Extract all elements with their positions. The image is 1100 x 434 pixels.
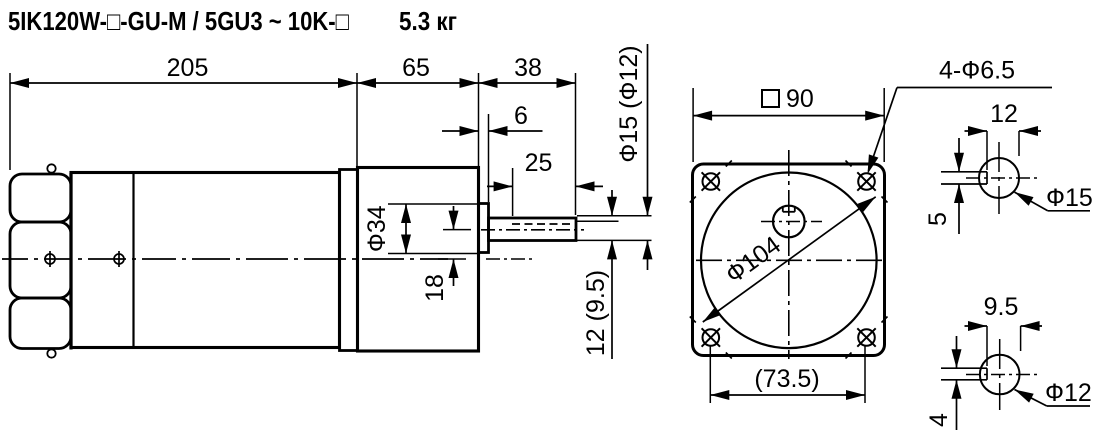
ext line boss face (488, 114, 490, 202)
detail F15 keyway slot (941, 171, 987, 173)
motor centerline right segment (486, 258, 533, 260)
svg-text:65: 65 (402, 54, 430, 82)
svg-text:Ф34: Ф34 (363, 205, 391, 252)
tick motor center level (438, 258, 466, 260)
svg-text:5: 5 (924, 212, 952, 226)
dim 18 upper line (453, 206, 455, 230)
ext line shaft top (577, 215, 652, 217)
label 4-F6.5 leader (869, 88, 898, 172)
output shaft (489, 218, 577, 241)
detail F12 ext line right edge (1020, 326, 1022, 351)
detail F15 ext line right edge (1018, 131, 1020, 156)
gearbox front square (693, 164, 885, 356)
svg-text:18: 18 (421, 274, 449, 302)
bolt hole top-left (703, 173, 720, 190)
svg-text:5.3 кг: 5.3 кг (399, 6, 457, 36)
front housing circle (701, 172, 877, 348)
ext line hole left (709, 346, 711, 403)
shaft flat hidden line (512, 223, 574, 225)
front shaft centerline (761, 221, 822, 223)
front vertical centerline (788, 150, 790, 359)
shaft centerline (481, 229, 584, 231)
centerline mark circle 2 (114, 254, 124, 264)
svg-text:Ф104: Ф104 (721, 231, 787, 289)
detail F12 shaft circle (980, 355, 1020, 395)
svg-text:6: 6 (514, 102, 528, 130)
rear cover lobe 3 (10, 298, 71, 349)
ext line boss bottom (388, 253, 480, 255)
gearbox flange (340, 170, 358, 351)
svg-text:38: 38 (514, 54, 542, 82)
dim text square90 (762, 90, 779, 107)
dim 12(9.5) lower line (611, 240, 613, 359)
svg-text:4-Ф6.5: 4-Ф6.5 (939, 57, 1015, 85)
detail F15 dim 12 (965, 130, 988, 132)
dim F15(F12) upper line (647, 44, 649, 216)
svg-text:Ф15: Ф15 (1046, 184, 1093, 212)
detail F12 dim 4 upper line (956, 336, 958, 368)
detail F15 dim 5 lower line (958, 184, 960, 234)
front horizontal centerline (696, 259, 886, 261)
detail F12 vertical centerline (999, 339, 1001, 410)
dim 25 (487, 185, 513, 187)
centerline mark tick 2 (118, 251, 120, 267)
label F15 leader (1015, 192, 1048, 211)
svg-text:5IK120W-□-GU-M / 5GU3 ~ 10K-□: 5IK120W-□-GU-M / 5GU3 ~ 10K-□ (8, 6, 349, 36)
detail F15 shaft circle (979, 158, 1019, 198)
motor centerline (2, 258, 28, 260)
detail F15 horizontal centerline (966, 177, 1040, 179)
svg-text:4: 4 (925, 413, 953, 427)
ext line boss top (388, 203, 480, 205)
detail F15 vertical centerline (998, 142, 1000, 214)
screw head bump bottom (47, 349, 55, 357)
svg-text:90: 90 (786, 85, 814, 113)
dim (73.5) line (710, 394, 865, 396)
tick shaft center level (443, 229, 471, 231)
gearbox body (358, 168, 479, 352)
svg-text:12 (9.5): 12 (9.5) (582, 270, 610, 356)
bolt hole bottom-right (858, 329, 875, 346)
svg-text:Ф15 (Ф12): Ф15 (Ф12) (615, 45, 643, 162)
svg-text:25: 25 (525, 149, 553, 177)
front shaft keyway notch (782, 207, 784, 212)
rear cover lobe 2 (10, 222, 71, 298)
detail F12 ext line slot floor (986, 326, 988, 366)
bolt hole top-right (858, 173, 875, 190)
dim 18 lower line (453, 259, 455, 286)
output boss (479, 204, 489, 253)
detail F12 keyway slot (941, 367, 987, 369)
dim F15(F12) lower line (647, 240, 649, 270)
centerline mark tick 1 (49, 251, 51, 267)
dim F104 diagonal line (703, 197, 876, 322)
detail F12 dim 4 lower line (956, 380, 958, 430)
ext line shaft end (575, 73, 577, 215)
ext line square right (883, 88, 885, 162)
screw head bump top (47, 164, 55, 172)
ext line gearbox face (478, 73, 480, 166)
label F12 leader (1015, 390, 1047, 407)
ext line shaft flat level (577, 220, 619, 222)
dim 12(9.5) upper line (611, 190, 613, 216)
bolt hole bottom-left (703, 329, 720, 346)
detail F12 dim 9.5 (965, 325, 988, 327)
svg-text:205: 205 (167, 54, 209, 82)
ext line shaft bottom (577, 239, 652, 241)
ext line hole right (864, 346, 866, 403)
detail F15 dim 5 upper line (958, 138, 960, 172)
svg-text:Ф12: Ф12 (1045, 379, 1092, 407)
svg-text:9.5: 9.5 (984, 293, 1019, 321)
dim square90 line (693, 115, 884, 117)
label 4-F6.5 underline (897, 87, 1052, 89)
rear cover face line (69, 173, 72, 350)
ext line flat start (512, 168, 514, 216)
detail F15 ext line slot floor (986, 131, 988, 170)
ext line motor/gearbox joint (356, 73, 358, 166)
centerline mark circle 1 (45, 254, 55, 264)
svg-text:(73.5): (73.5) (754, 365, 819, 393)
detail F12 horizontal centerline (966, 374, 1041, 376)
ext line square left (692, 88, 694, 162)
dim 6 (442, 130, 479, 132)
motor body (71, 173, 340, 348)
rear cover lobe 1 (10, 174, 71, 222)
ext line left end (9, 73, 11, 170)
front shaft circle (773, 206, 805, 238)
dim line 205/65/38 (10, 82, 576, 84)
dim F34 line (405, 204, 407, 254)
motor body seam line (132, 174, 134, 346)
svg-text:12: 12 (990, 100, 1018, 128)
